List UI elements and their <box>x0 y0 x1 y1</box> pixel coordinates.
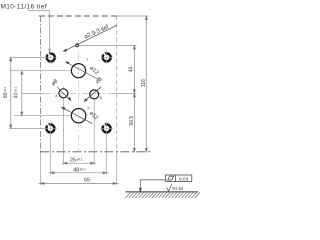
plate outline right edge (dashed) <box>116 16 118 152</box>
dim 40 vertical line left <box>21 71 23 116</box>
extension line T row left <box>9 70 71 72</box>
callout text 8 for B <box>95 76 104 85</box>
svg-text:65: 65 <box>84 178 90 184</box>
leader for T hole <box>66 62 99 80</box>
svg-text:T: T <box>86 58 88 62</box>
surface finish symbol Rz 63 <box>167 184 184 192</box>
extension line A column down <box>62 98 64 165</box>
extension line P row left <box>14 115 71 117</box>
port B hole diameter 8 <box>90 90 99 99</box>
flatness tolerance frame <box>165 175 191 182</box>
extension line top edge to 116 dim <box>117 15 149 17</box>
leader from frame to surface <box>139 180 165 192</box>
centerline tick above A <box>62 86 64 89</box>
callout text 2.9-3 tief <box>83 24 110 40</box>
extension line left bolt column down <box>49 134 51 175</box>
dim 40 text left <box>14 86 20 98</box>
dim 65 horizontal line <box>39 182 119 184</box>
svg-text:Rz 63: Rz 63 <box>172 186 184 191</box>
small hole diameter 2.9 <box>76 44 79 47</box>
svg-text:50.5: 50.5 <box>129 116 135 126</box>
callout text 12 for T <box>88 65 99 76</box>
dim 40 vertical line right <box>133 46 135 94</box>
extension line right plate edge down <box>116 152 118 185</box>
extension line B column down <box>93 100 95 165</box>
bolt hole bottom-left M10 <box>44 122 57 135</box>
dim 50.5 vertical line right <box>133 93 135 151</box>
svg-text:116: 116 <box>141 79 147 87</box>
leader for A hole <box>57 87 70 100</box>
bolt hole top-left M10 <box>44 51 57 64</box>
plate outline top edge (dashed) <box>39 15 117 17</box>
leader from M10 note to bolt hole <box>28 11 50 52</box>
dim 50.5 text <box>129 116 135 126</box>
surface hatching <box>126 192 201 198</box>
leader for small hole <box>64 25 118 51</box>
dim 26 horizontal line <box>62 162 96 164</box>
dim 116 vertical line <box>145 16 147 152</box>
extension line right bolt column down <box>106 134 108 175</box>
bolt hole bottom-right M10 <box>100 122 113 135</box>
plate outline left edge (dash-dot) <box>39 16 41 152</box>
surface line <box>125 191 198 193</box>
extension line top bolt row left <box>9 56 44 58</box>
dim 60 text <box>3 86 9 98</box>
callout text 8 for A <box>50 78 59 87</box>
dim 60 vertical line left <box>10 57 12 128</box>
dim 116 text <box>141 79 147 87</box>
leader for B hole <box>84 87 101 102</box>
extension line A B row <box>21 92 45 94</box>
port P hole diameter 12 <box>71 109 85 123</box>
leader for P hole <box>62 107 92 123</box>
port T hole diameter 12 <box>71 64 85 78</box>
mounting face trace line bottom (dash-dot) <box>40 151 150 153</box>
extension line small hole row right <box>79 45 137 47</box>
vertical centerline through P T holes (dash-dot) <box>78 40 80 152</box>
callout text 12 for P <box>88 110 99 121</box>
dim 48 horizontal line <box>49 172 109 174</box>
dim 40 text right <box>129 66 135 72</box>
extension line bottom bolt row left <box>9 127 45 129</box>
extension line left plate edge down <box>39 152 41 185</box>
bolt hole top-right M10 <box>100 51 113 64</box>
port A hole diameter 8 <box>59 89 68 98</box>
svg-text:0.03: 0.03 <box>179 176 189 182</box>
svg-text:40: 40 <box>129 66 135 72</box>
svg-text:M10-11/16 tief: M10-11/16 tief <box>1 3 47 10</box>
